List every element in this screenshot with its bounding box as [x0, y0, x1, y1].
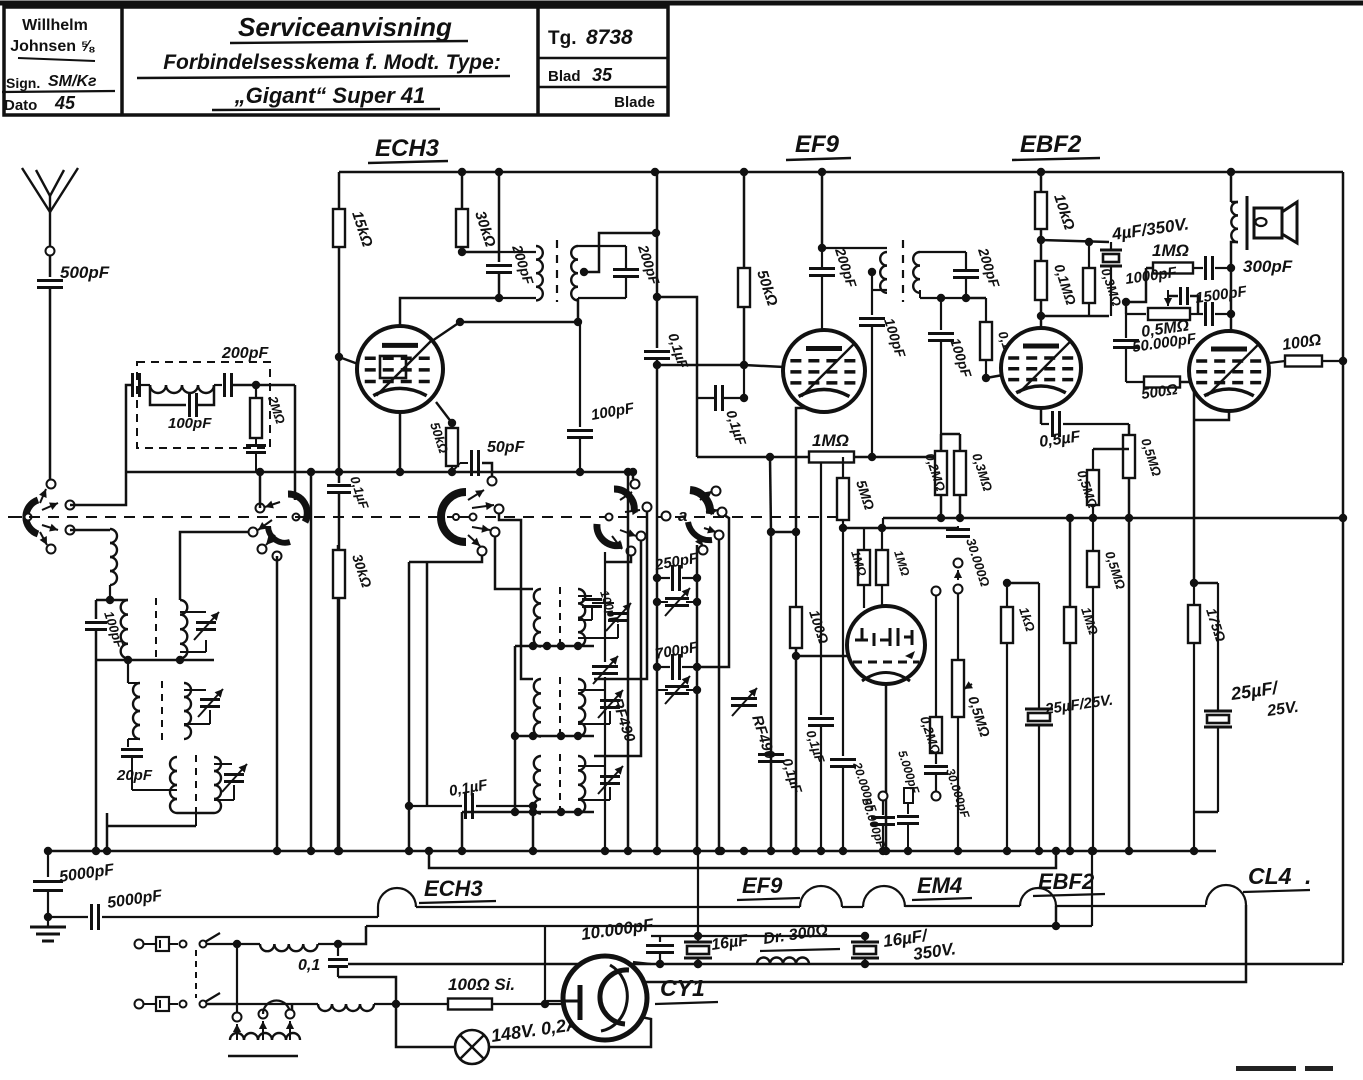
svg-text:Serviceanvisning: Serviceanvisning: [238, 12, 452, 42]
resistor 50k&#937; EF9: [738, 172, 781, 365]
title right Tg: [538, 26, 668, 58]
transformer terminal b: [259, 1010, 268, 1019]
node ground bus x721: [717, 847, 725, 855]
terminal S3d: [478, 547, 487, 556]
wire EF9 grid: [744, 365, 784, 367]
terminal S4b: [643, 503, 652, 512]
capacitor 50pF: [452, 439, 526, 477]
svg-text:a: a: [678, 506, 687, 525]
svg-text:200pF: 200pF: [221, 345, 269, 362]
resistor 30k&#937;: [456, 172, 499, 249]
output transformer: [1231, 172, 1247, 250]
terminal S4c: [637, 532, 646, 541]
wire x338 osc: [334, 545, 342, 855]
osc coil pair2: [534, 677, 585, 739]
heater jog EBF2: [1055, 906, 1058, 926]
osc coil pair1: [534, 587, 585, 649]
oscillator line y472: [126, 471, 633, 474]
title right Blad: [538, 65, 668, 87]
svg-text:1MΩ: 1MΩ: [812, 431, 849, 450]
transformer terminal a: [233, 1013, 242, 1022]
coil divider 1: [155, 598, 157, 662]
EF9 tube: [783, 330, 865, 412]
heater wire right: [905, 905, 1020, 907]
wire ECH3 cathode: [396, 412, 404, 476]
band switch S1: [8, 489, 58, 545]
resistor 0,5M&#937; a: [1123, 424, 1164, 855]
capacitor 0,5&#181;F det: [1038, 411, 1129, 451]
wire det y434: [937, 434, 960, 461]
wire x698 drop: [697, 851, 699, 936]
heater EBF2 bump: [1020, 888, 1056, 906]
wire y583: [1007, 582, 1039, 585]
svg-text:500pF: 500pF: [60, 263, 110, 282]
capacitor 250pF: [653, 550, 701, 591]
IF2 secondary coil: [913, 252, 966, 298]
node top bus x744: [740, 168, 748, 176]
svg-text:CL4: CL4: [1248, 863, 1292, 889]
wire y242: [1041, 240, 1109, 242]
title right Blade: [614, 94, 655, 111]
svg-text:Dato: Dato: [4, 97, 37, 114]
heater CL4 bump: [1206, 885, 1246, 905]
tube label EF9 heater: [737, 873, 800, 900]
coil pair3: [132, 755, 247, 815]
wire 15k down: [335, 247, 343, 483]
capacitor 0,1&#181;F osc: [405, 776, 537, 855]
wire y532: [771, 531, 796, 534]
node top bus x822: [818, 168, 826, 176]
terminal S2c: [258, 545, 267, 554]
line filter choke 1: [237, 940, 342, 951]
svg-text:Tg.: Tg.: [548, 28, 577, 49]
wire x697 riser upper: [653, 293, 697, 398]
capacitor 5000pF chassis: [33, 851, 116, 917]
wavetrap coil: [140, 385, 222, 393]
svg-text:„Gigant“ Super 41: „Gigant“ Super 41: [234, 83, 426, 108]
capacitor 4&#181;F/350V: [1100, 214, 1190, 316]
volume pot 0,5M&#937;: [952, 593, 993, 855]
wire S1b to box riser: [70, 385, 133, 505]
capacitor 1000pF: [1124, 264, 1198, 314]
svg-text:0,1: 0,1: [298, 957, 320, 974]
capacitor 500pF: [37, 263, 110, 288]
IF2 secondary cap 200pF: [953, 245, 1003, 298]
wire EBF2 grid: [986, 375, 1003, 378]
grid line y457: [697, 453, 941, 461]
ECH3 tube: [357, 326, 443, 412]
capacitor 50.000pF g: [1113, 330, 1198, 382]
heater ECH3 bump: [378, 888, 416, 907]
wire IF1 tap: [580, 229, 660, 276]
wire y472 corner to S4: [629, 468, 637, 479]
heater CL4 drop: [640, 905, 1246, 982]
terminal S1b: [66, 501, 75, 510]
wire x628 riser: [624, 468, 632, 855]
ground symbol: [30, 913, 66, 941]
terminal S4a: [631, 480, 640, 489]
wire coil L1 bottom: [96, 596, 128, 604]
wavetrap dashed box: [137, 362, 270, 448]
coil pair1 left: [121, 600, 128, 658]
svg-text:Blade: Blade: [614, 94, 655, 111]
svg-text:EM4: EM4: [917, 873, 962, 898]
capacitor 0,1 line: [298, 944, 396, 1004]
resistor 0,5M&#937; c: [1087, 518, 1128, 855]
wire ECH3 plate: [400, 298, 499, 326]
padder trimmer 700pF: [657, 676, 701, 704]
svg-text:20pF: 20pF: [116, 767, 153, 784]
IF1 divider: [556, 240, 558, 302]
svg-text:Johnsen ⅝: Johnsen ⅝: [10, 38, 95, 55]
wire x311 riser: [307, 468, 315, 855]
mains switch 1: [180, 933, 238, 948]
heater EM4 bump: [863, 886, 905, 907]
svg-text:Blad: Blad: [548, 68, 581, 85]
wire EM4 bottom: [882, 684, 890, 855]
resistor 50k&#937; osc: [427, 420, 458, 476]
resistor 15k&#937;: [333, 209, 376, 249]
volume terminal b: [954, 585, 963, 594]
wire osc pair2 bottom: [515, 732, 594, 740]
capacitor 100pF det: [928, 298, 975, 434]
coil pair2 left: [128, 660, 140, 739]
right border wire: [1342, 172, 1345, 963]
wire S4d to RF490a: [605, 556, 631, 562]
svg-text:EBF2: EBF2: [1020, 131, 1082, 158]
antenna coil L1: [110, 529, 117, 600]
osc pair2 trimmer: [578, 690, 623, 724]
padder trimmer 250pF: [653, 588, 701, 616]
antenna: [22, 168, 78, 246]
node ground bus x744: [740, 847, 748, 855]
transformer arc: [263, 1001, 290, 1014]
IF2 divider: [902, 240, 904, 302]
trimmer pair1: [180, 612, 219, 652]
svg-text:1MΩ: 1MΩ: [1152, 241, 1189, 260]
capacitor box entry: [133, 373, 140, 397]
terminal S4d: [627, 547, 636, 556]
EBF2 tube: [1001, 328, 1081, 408]
wire S2 tap to pair1: [180, 532, 253, 600]
svg-text:EF9: EF9: [795, 131, 840, 158]
svg-text:EF9: EF9: [742, 873, 783, 898]
resistor 10k&#937;: [1035, 172, 1078, 244]
wire pair1 bottom: [96, 656, 214, 664]
antenna terminal: [46, 247, 55, 256]
terminal S3b: [495, 505, 504, 514]
tube label CY1: [655, 975, 718, 1004]
wire x843 lower: [830, 528, 880, 855]
wire IF2 tap cap 100pF: [859, 268, 909, 461]
capacitor 20pF: [116, 739, 153, 784]
EM4 tube: [847, 606, 925, 684]
mains terminal 1: [135, 940, 157, 949]
svg-text:35: 35: [592, 65, 613, 85]
tube label EBF2: [1012, 131, 1100, 160]
resistor 500&#937;: [1126, 377, 1194, 416]
wire y934 HT: [651, 932, 865, 940]
wire cap to switch S1: [49, 288, 52, 479]
wire S4c down: [594, 541, 641, 756]
terminal S2a: [256, 504, 265, 513]
terminal S2b: [249, 528, 258, 537]
volume cap 30.000&#937;: [946, 526, 993, 588]
mains terminal 2: [135, 1000, 157, 1009]
terminal S5d: [699, 546, 708, 555]
resistor 1M&#937; af: [1064, 514, 1101, 855]
wire CY1 filament: [545, 926, 567, 1004]
coil divider 2: [161, 681, 163, 742]
node ground bus x697: [693, 847, 701, 855]
resistor 175&#937;: [1188, 583, 1229, 855]
resistor 100&#937; screen: [1269, 332, 1347, 367]
wire S3c to coil1: [495, 537, 533, 589]
wire x697 lower: [693, 545, 701, 855]
IF1 secondary coil: [571, 246, 626, 300]
capacitor 25&#181;F/25V a: [1025, 583, 1114, 855]
bottom rail y963 wire: [348, 963, 1343, 966]
svg-text:.: .: [1305, 863, 1311, 889]
wire osc left riser: [511, 646, 519, 816]
resistor 0,3M&#937; EBF2: [1083, 238, 1124, 316]
wire EM4 grid top: [843, 524, 958, 532]
wire mains bottom: [207, 1003, 292, 1005]
mains plug 1: [156, 937, 178, 951]
node top bus x655: [651, 168, 659, 176]
wire pair3 bottom to bus: [103, 813, 214, 855]
pilot lamp feed: [396, 1004, 455, 1047]
node top bus x499: [495, 168, 503, 176]
capacitor 200pF EF9 anode: [809, 172, 860, 330]
terminal S2d: [273, 552, 282, 561]
wire x462 down: [458, 812, 466, 855]
node top bus x1231: [1227, 168, 1235, 176]
capacitor 700pF: [653, 639, 701, 680]
IF2 primary coil: [822, 248, 887, 293]
IF1 secondary cap 200pF: [613, 242, 663, 298]
wire CL4 cathode: [1190, 411, 1229, 587]
heater return wire: [366, 847, 1096, 930]
wire S3b to coil2: [499, 514, 533, 679]
band switch S4: [597, 489, 640, 549]
svg-text:ECH3: ECH3: [424, 876, 483, 901]
tube label EBF2 heater: [1033, 869, 1105, 896]
wire AVC to EM4: [882, 518, 884, 528]
terminal S3 top: [488, 477, 497, 486]
CL4 tube: [1189, 331, 1269, 411]
transformer primary tap wire: [236, 944, 238, 1013]
switch shaft dashed line: [10, 516, 850, 518]
band switch S2: [258, 494, 307, 545]
wire 30k to IF1: [458, 247, 499, 256]
speaker: [1254, 202, 1297, 243]
resistor 0,1M&#937; det: [980, 298, 1021, 382]
heater wire to CL4: [1056, 905, 1206, 907]
capacitor 200pF trap: [221, 345, 269, 397]
page top border: [0, 1, 1363, 6]
wire CY1 anode: [547, 1000, 564, 1002]
terminal S5b: [718, 508, 727, 517]
wire osc pair1 bottom: [515, 642, 594, 650]
CY1 tube: [563, 956, 647, 1040]
heater return CL4 wire: [639, 981, 641, 983]
tube label ECH3: [368, 135, 448, 163]
heater wire mid: [416, 906, 800, 908]
svg-text:CY1: CY1: [660, 975, 705, 1001]
wire pot node: [1122, 298, 1130, 314]
wire EBF2 diode out: [1040, 408, 1043, 424]
capacitor trap bottom: [246, 438, 266, 472]
resistor 15k&#937; lead: [338, 172, 341, 209]
wire CY1 top: [633, 960, 702, 968]
resistor 5M&#937;: [837, 457, 878, 532]
wire mains to transformer: [291, 1004, 294, 1010]
line filter choke 2: [292, 1000, 400, 1011]
wire osc grid cap: [567, 322, 636, 476]
wire EBF2 plate: [1040, 316, 1043, 329]
wavetrap capacitor 100pF: [150, 385, 214, 432]
resistor 2M&#937;: [250, 385, 288, 438]
capacitor 100pF ant: [85, 600, 127, 660]
transformer terminal c: [286, 1010, 295, 1019]
wire S3d down: [405, 556, 482, 855]
resistor 1M&#937; EM4 a: [848, 528, 870, 608]
wire x427 feed: [426, 562, 429, 806]
svg-text:Forbindelsesskema f. Modt. Typ: Forbindelsesskema f. Modt. Type:: [163, 51, 501, 74]
title center line1: [230, 12, 468, 43]
scan artifact mark: [1236, 1066, 1333, 1071]
resistor 0,5M&#937; b: [1074, 449, 1129, 522]
wire EF9 cathode: [792, 408, 806, 536]
resistor 100&#937; Si: [396, 975, 549, 1010]
variable capacitor RF490 b: [731, 688, 778, 762]
switch link dashed: [195, 950, 197, 998]
AVC line y518: [883, 514, 1347, 522]
capacitor 30.000pF: [924, 753, 973, 820]
capacitor 25&#181;F/25V b: [1194, 583, 1300, 812]
svg-text:SM/Kг: SM/Kг: [48, 73, 97, 90]
wire x821 riser: [803, 462, 834, 855]
capacitor 0,1&#181;F grid: [697, 365, 750, 448]
ground bus wire: [48, 850, 1216, 853]
tube label EF9: [786, 131, 851, 160]
wire EM4 left lead: [796, 655, 848, 658]
wire antenna to cap: [49, 256, 52, 277]
capacitor 300pF: [1206, 256, 1293, 280]
tube label ECH3 heater: [419, 876, 496, 903]
svg-text:45: 45: [54, 93, 76, 113]
node top bus x1041: [1037, 168, 1045, 176]
terminal S3c: [491, 528, 500, 537]
osc pair1 trimmer: [578, 603, 631, 638]
wire CL4 plate: [1230, 245, 1233, 331]
IF1 primary coil: [495, 246, 543, 302]
resistor 0,3M&#937; avc: [954, 434, 995, 522]
potentiometer 0,5M&#937;: [1126, 290, 1191, 341]
band switch S3: [441, 490, 494, 546]
heater wire ECH3 riser: [377, 907, 379, 917]
wire x657 screen line: [644, 172, 692, 855]
terminal S1a: [47, 480, 56, 489]
svg-text:100Ω Si.: 100Ω Si.: [448, 975, 515, 994]
resistor 1k&#937; af: [1001, 579, 1038, 855]
wire trap out: [232, 381, 295, 389]
resistor 0,2M&#937; det: [917, 714, 943, 756]
terminal S5a: [712, 487, 721, 496]
svg-text:300pF: 300pF: [1243, 257, 1293, 276]
terminal node a: [662, 506, 688, 525]
terminal S1c: [66, 526, 75, 535]
osc coil pair3: [534, 754, 585, 816]
heater EF9 bump: [800, 886, 842, 907]
wire lamp to CY1: [489, 1017, 651, 1047]
wire S1c to ant coil: [70, 529, 110, 532]
capacitor 5.000pF: [895, 749, 922, 856]
mains switch 2: [180, 993, 238, 1008]
wire screen to EF9: [657, 361, 748, 369]
capacitor 0,1&#181;F x339: [327, 474, 372, 512]
osc pair3 trimmer: [578, 766, 623, 800]
svg-text:EBF2: EBF2: [1038, 869, 1095, 894]
capacitor 16&#181;F: [684, 932, 750, 968]
volume terminal a: [954, 559, 963, 581]
tube label CL4 heater: [1243, 863, 1311, 892]
terminal S5c: [715, 531, 724, 540]
terminal S1d: [47, 545, 56, 554]
wire S2d down: [273, 556, 281, 855]
wire to ECH3 g: [339, 357, 358, 364]
wire S4b down: [594, 512, 647, 679]
wire S2a up: [256, 468, 264, 508]
title center line3: [212, 83, 440, 110]
capacitor 16&#181;F/350V: [851, 926, 957, 968]
variable capacitor RF490 a: [592, 552, 638, 855]
svg-text:ECH3: ECH3: [375, 135, 440, 162]
wire x771 riser: [767, 457, 775, 855]
node top bus x462: [458, 168, 466, 176]
wire mains top right: [338, 926, 366, 944]
title block left cell text: [2, 17, 115, 114]
resistor 30k&#937; lower: [333, 493, 375, 855]
IF1 primary cap 200pF: [486, 172, 537, 298]
node ground bus x48: [44, 847, 52, 855]
wire S5c down: [715, 540, 723, 855]
svg-text:100pF: 100pF: [168, 415, 212, 432]
coil pair1 right: [180, 600, 187, 658]
band switch S5: [688, 490, 718, 546]
wire IF2 bottom nodes: [937, 294, 986, 302]
filter choke Dr300: [757, 922, 840, 964]
heater wire gap: [842, 906, 863, 908]
node ECH3 osc grid: [436, 402, 456, 427]
resistor 0,1M&#937; EBF2: [1035, 240, 1079, 320]
capacitor 50.000pF: [859, 792, 895, 856]
coil pair2 right: [184, 683, 223, 739]
capacitor 0,1&#181;F x771: [758, 755, 806, 796]
wiper tap wire: [932, 587, 941, 718]
resistor 1M&#937; EM4 b: [876, 528, 913, 606]
svg-text:8738: 8738: [586, 26, 633, 49]
wire ECH3 triode grid: [432, 298, 582, 341]
wire box to S2: [294, 385, 297, 500]
osc pair1 cap 100pF: [578, 589, 621, 627]
svg-text:Sign.: Sign.: [6, 75, 40, 91]
resistor 1M&#937; coupling: [1146, 241, 1203, 274]
capacitor 10.000pF: [580, 915, 674, 968]
wire x697 to y457: [696, 398, 699, 457]
B+ top bus wire: [339, 171, 1343, 174]
